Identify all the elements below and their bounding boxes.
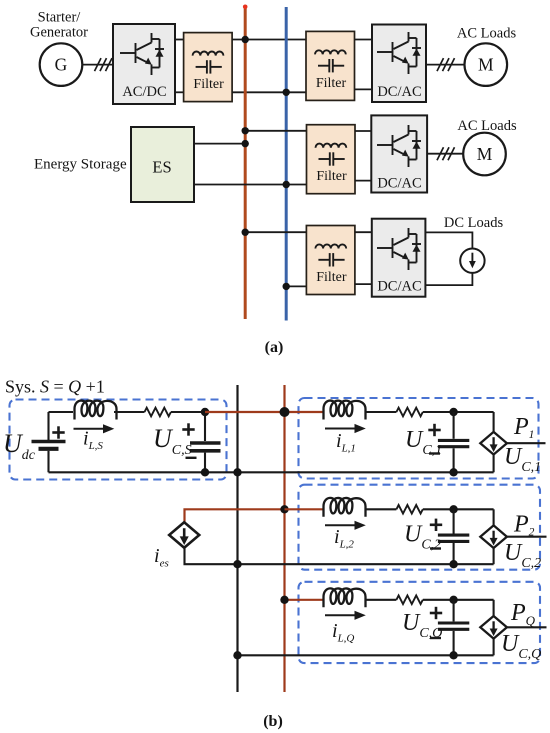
converter DC/AC box row3	[372, 219, 426, 297]
source PQ diamond	[480, 616, 507, 639]
wire P1 output	[507, 442, 546, 444]
svg-text:UC,Q: UC,Q	[501, 631, 541, 662]
current source ies diamond	[169, 522, 199, 548]
filter F3	[307, 125, 356, 194]
node cap2 top	[449, 505, 457, 513]
wire F2 to DC/AC top	[355, 39, 373, 41]
battery Udc stem top	[47, 412, 49, 440]
inductor LQ	[324, 588, 366, 607]
minus UC1	[429, 452, 440, 454]
minus UCS	[186, 457, 197, 459]
wire diamondQ bottom	[493, 639, 495, 656]
converter DC/AC box row2	[371, 115, 427, 192]
svg-text:DC/AC: DC/AC	[377, 84, 421, 100]
plus UCQ	[430, 607, 442, 619]
wire ES bottom to F3 row2	[194, 184, 307, 186]
node red row1	[242, 36, 249, 43]
node cap1 top	[449, 408, 457, 416]
wire diamond2 bottom	[493, 548, 495, 564]
wire DC/AC to load top row3	[425, 232, 472, 248]
motor M row2	[463, 133, 506, 176]
wire diamond1 bottom	[493, 454, 495, 472]
svg-text:PQ: PQ	[510, 600, 536, 628]
capacitor UCQ stem top	[453, 600, 455, 622]
wire red top to load1	[205, 411, 324, 413]
wire top rail S left	[49, 411, 74, 413]
node red bus rowQ	[280, 596, 288, 604]
wire F2 to DC/AC bottom	[355, 88, 373, 90]
wire bottom rail Q	[238, 654, 494, 656]
node blue row2	[283, 181, 290, 188]
svg-text:AC/DC: AC/DC	[122, 84, 166, 100]
svg-text:Starter/: Starter/	[38, 10, 82, 26]
wire LQ to RQ	[365, 599, 397, 601]
current source load	[460, 249, 484, 273]
converter DC/AC box row1	[372, 25, 426, 103]
plus UC1	[428, 424, 440, 436]
svg-text:(b): (b)	[263, 713, 283, 730]
inductor L2	[324, 498, 366, 517]
resistor R1	[396, 408, 422, 417]
plus UC2	[430, 519, 442, 531]
capacitor UC2 stem bottom	[453, 543, 455, 564]
wire diamond2 top	[493, 509, 495, 525]
wire ES top to red bus	[194, 143, 245, 145]
wire diamond1 top	[493, 412, 495, 432]
svg-text:DC/AC: DC/AC	[377, 176, 421, 192]
bus black (b)	[236, 385, 238, 692]
bus red (b)	[283, 385, 285, 692]
svg-text:iL,2: iL,2	[334, 526, 354, 551]
capacitor UC2 plates	[438, 535, 469, 541]
resistor RQ	[396, 596, 422, 605]
IGBT symbol U3	[377, 125, 421, 167]
svg-text:DC/AC: DC/AC	[377, 279, 421, 295]
wire G to AC/DC	[82, 64, 113, 66]
node black bus row2	[233, 560, 241, 568]
wire P2 output	[507, 536, 547, 538]
node red row3	[242, 229, 249, 236]
source subsystem dashed box	[10, 400, 227, 480]
filter F4	[306, 226, 355, 295]
wire AC/DC to Filter top	[175, 39, 184, 41]
battery plus	[52, 426, 64, 438]
battery Udc stem bottom	[47, 451, 49, 473]
node red bus top	[280, 407, 290, 417]
svg-text:ies: ies	[154, 545, 169, 570]
wire coil to resistor	[114, 411, 145, 413]
IGBT symbol U1	[120, 33, 164, 75]
DC bus positive (red)	[244, 7, 247, 319]
wire red bus to F3 row2	[245, 130, 306, 132]
energy storage ES box	[131, 127, 194, 202]
wire blue bus to F4 row3	[286, 285, 306, 287]
three-phase slashes row1	[437, 58, 455, 71]
node capQ bottom	[449, 651, 457, 659]
converter AC/DC box	[113, 24, 175, 104]
node S top	[201, 408, 209, 416]
wire resistor to node	[171, 411, 205, 413]
wire L1 to R1	[365, 411, 397, 413]
svg-text:Generator: Generator	[30, 25, 88, 41]
current source ies red lead	[185, 509, 285, 523]
node blue row3	[283, 283, 290, 290]
wire R2 to node	[423, 508, 494, 510]
wire DC/AC to M row1	[426, 64, 464, 66]
capacitor UCQ plates	[438, 623, 469, 629]
three-phase slashes row2	[437, 147, 455, 160]
IGBT symbol U4	[377, 228, 421, 270]
resistor R2	[396, 505, 422, 514]
node cap S bottom	[201, 468, 209, 476]
node cap2 bottom	[449, 560, 457, 568]
load 2 dashed box	[299, 485, 541, 570]
svg-text:G: G	[55, 55, 68, 75]
three-phase slashes	[95, 58, 113, 71]
capacitor UC1 stem bottom	[453, 448, 455, 472]
svg-text:P2: P2	[513, 512, 535, 539]
svg-text:iL,1: iL,1	[336, 430, 356, 455]
svg-text:ES: ES	[152, 158, 171, 177]
capacitor UC1 plates	[438, 440, 469, 446]
battery Udc plates	[32, 442, 66, 449]
node cap1 bottom	[449, 468, 457, 476]
wire DC/AC to M row2	[427, 153, 463, 155]
node blue row1	[283, 89, 290, 96]
wire diamondQ top	[493, 600, 495, 616]
capacitor UCS stem bottom	[204, 453, 206, 473]
current arrow iL2	[325, 521, 366, 530]
minus UC2	[430, 547, 441, 549]
svg-text:iL,Q: iL,Q	[332, 620, 354, 645]
DC bus negative (blue)	[285, 7, 288, 321]
capacitor UCS stem top	[204, 412, 206, 441]
wire F3 to DC/AC top	[355, 130, 371, 132]
node red row2	[242, 127, 249, 134]
wire F3 to DC/AC bottom	[355, 180, 371, 182]
wire R1 to node	[423, 411, 494, 413]
red bus cap dot	[243, 5, 248, 10]
svg-text:Energy Storage: Energy Storage	[34, 157, 127, 173]
wire red to loadQ	[285, 599, 324, 601]
svg-text:DC Loads: DC Loads	[444, 215, 504, 231]
IGBT symbol U2	[377, 32, 421, 74]
current arrow iL1	[325, 424, 366, 433]
svg-text:AC Loads: AC Loads	[457, 26, 517, 42]
load 1 dashed box	[299, 398, 539, 479]
svg-text:Sys. S = Q +1: Sys. S = Q +1	[5, 377, 105, 397]
current arrow iLQ	[325, 611, 366, 620]
wire DC/AC to load bottom row3	[425, 273, 472, 285]
minus UCQ	[430, 637, 441, 639]
node capQ top	[449, 596, 457, 604]
resistor RS	[145, 408, 171, 417]
filter F1	[184, 33, 233, 102]
svg-text:Udc: Udc	[3, 429, 36, 463]
svg-text:UC,1: UC,1	[504, 444, 541, 475]
wire F1 to F2 rail top	[232, 39, 306, 41]
plus UCS	[182, 423, 194, 435]
current arrow iLS	[74, 424, 115, 433]
node black bus rowQ	[233, 651, 241, 659]
label Starter/Generator	[30, 10, 88, 41]
filter F2	[306, 31, 355, 100]
svg-text:P1: P1	[513, 414, 534, 441]
inductor LS	[75, 401, 117, 420]
wire L2 to R2	[365, 508, 397, 510]
wire red to load2	[285, 508, 324, 510]
wire AC/DC to Filter bottom	[175, 91, 184, 93]
wire RQ to node	[423, 599, 494, 601]
wire F4 to DC/AC bottom	[355, 283, 372, 285]
wire F4 to DC/AC top	[355, 231, 372, 233]
wire PQ output	[507, 626, 547, 628]
load Q dashed box	[299, 582, 541, 663]
svg-text:UC,2: UC,2	[504, 540, 541, 571]
capacitor UC1 stem top	[453, 412, 455, 439]
wire ies bottom rail	[185, 546, 494, 564]
node red bus ies	[280, 505, 288, 513]
svg-text:AC Loads: AC Loads	[457, 118, 517, 134]
source P2 diamond	[480, 525, 507, 548]
capacitor UCQ stem bottom	[453, 631, 455, 655]
source P1 diamond	[480, 432, 507, 455]
capacitor UCS plates	[190, 443, 221, 451]
generator G	[40, 43, 83, 86]
node red ES	[242, 140, 249, 147]
bottom rail wire	[49, 471, 494, 473]
capacitor UC2 stem top	[453, 509, 455, 533]
inductor L1	[324, 401, 366, 420]
wire F1 to F2 rail bottom	[232, 91, 306, 93]
svg-text:(a): (a)	[265, 339, 284, 356]
node black bus row S	[233, 468, 241, 476]
wire red bus to F4 row3	[245, 231, 306, 233]
motor M row1	[465, 43, 508, 86]
svg-text:iL,S: iL,S	[83, 428, 103, 453]
